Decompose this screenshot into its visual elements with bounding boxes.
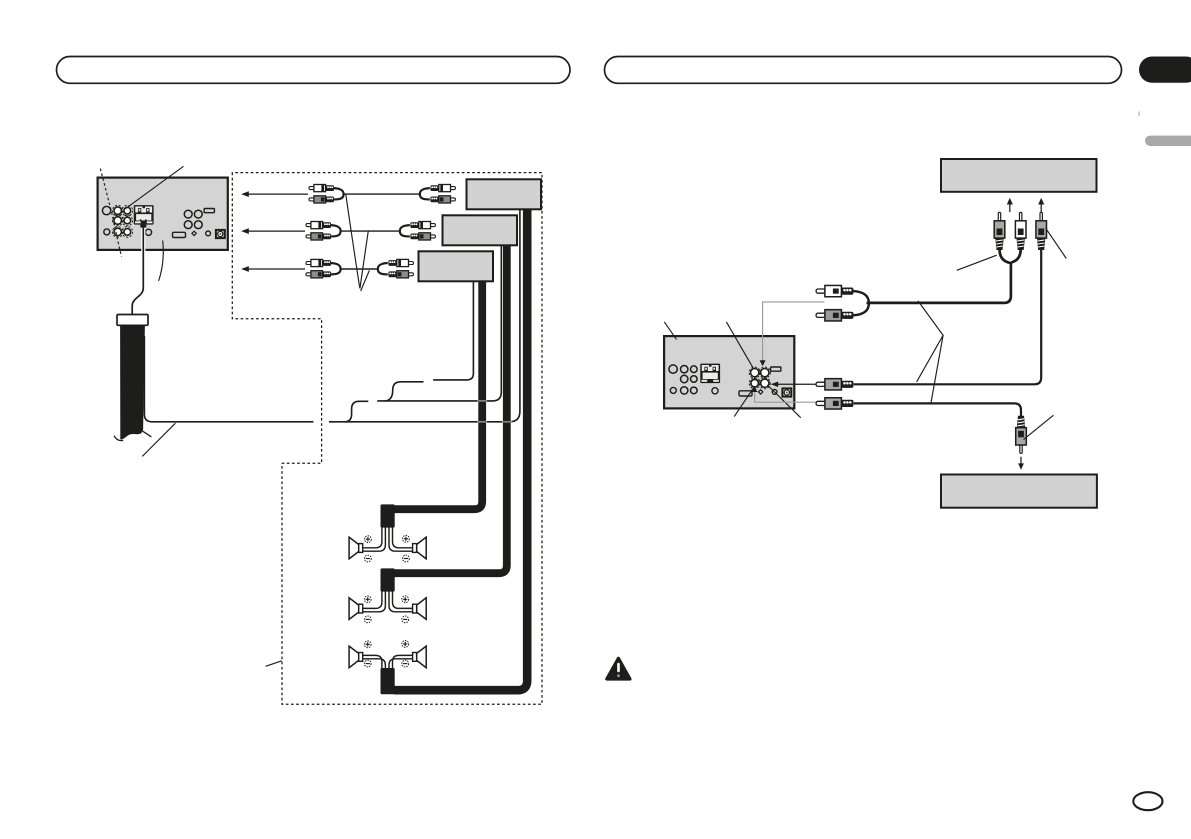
remote wire branch to box 2 (with U-turn joint)	[385, 382, 423, 401]
small gray tick (right margin)	[1138, 112, 1140, 116]
leader line (to top-left jack)	[726, 322, 753, 369]
system remote control wire (long run, head unit to box 1)	[144, 209, 520, 422]
RCA cable row 3: arrow to head unit	[241, 266, 305, 272]
Y-splitter cable from plugs A/B	[867, 249, 1011, 303]
branch wire gray crossing over speaker cable	[477, 400, 487, 402]
speaker front-right	[413, 537, 427, 559]
speaker rear-right	[413, 646, 427, 668]
leader line (to system remote wire)	[142, 423, 175, 456]
header title pill right column	[605, 57, 1122, 84]
RCA cable row 2: left plug pair with loop	[306, 222, 341, 240]
dashed rings on RCA output jacks	[112, 205, 132, 237]
RCA cable row 3: right plug pair with loop	[378, 259, 414, 278]
leader line (panel top-left)	[664, 322, 676, 340]
leader lines converging (cables callout)	[917, 301, 944, 382]
RCA plug D (gray, pointing down)	[1016, 416, 1027, 454]
speaker wires pair 2	[362, 591, 413, 612]
speaker front-left	[349, 537, 363, 559]
speaker cable from box 1 (to rear speakers, bottom run)	[394, 209, 527, 690]
dashed boundary box (amplifier connection area)	[232, 173, 542, 705]
leader line (bottom-left, to jack)	[734, 388, 753, 417]
head unit rear panel (left)	[98, 178, 228, 250]
warning triangle icon	[607, 658, 630, 679]
RCA cable row 2: arrow to head unit	[241, 228, 305, 234]
up arrow into box (right)	[1038, 198, 1044, 212]
antenna mast (black, broken end)	[120, 325, 145, 439]
speaker wires pair 3	[362, 655, 413, 670]
speaker wires pair 1	[362, 527, 413, 551]
antenna lead wire with X junction	[132, 219, 146, 314]
RCA output jacks white fill	[114, 207, 131, 236]
leader line (to plug C)	[1046, 228, 1067, 258]
AV jacks white fill	[751, 369, 769, 388]
remote wire lead from box 3	[433, 281, 473, 380]
RCA plug (row 3, left-pointing, gray)	[816, 398, 853, 409]
speaker cable stub 2	[381, 568, 395, 591]
RCA plug A (gray, up)	[994, 212, 1005, 250]
single cable from plug C	[854, 250, 1042, 385]
terminals pair 3	[364, 641, 371, 648]
RCA cable row 3: interconnect cable	[340, 268, 380, 270]
amplifier label box 2	[443, 215, 518, 245]
RCA cable row 1: arrow to head unit	[241, 191, 308, 197]
RCA cable row 1: left plug pair with loop	[309, 185, 344, 203]
RCA cable row 1: right plug pair with loop	[420, 185, 456, 204]
gray callout bracket row 3 with up arrowhead	[755, 392, 816, 402]
leader tick (to dashed box)	[266, 661, 282, 667]
amplifier label box 3	[419, 251, 494, 281]
RCA cable row 2: right plug pair with loop	[400, 222, 436, 241]
speaker mid-right	[413, 598, 427, 620]
antenna cap	[117, 315, 148, 326]
dashed rings on AV input/output jacks	[749, 367, 770, 389]
dashed leader line (to jack cluster)	[100, 169, 121, 257]
up arrow into box (left)	[1007, 198, 1013, 212]
leader line (panel bottom)	[159, 241, 164, 282]
header title pill left column	[57, 57, 571, 84]
speaker cable stub 1	[381, 504, 395, 527]
RCA cable row 2: interconnect cable	[340, 230, 402, 232]
gray index bar (right edge)	[1145, 136, 1191, 146]
RCA plug B (white, up)	[1015, 212, 1026, 250]
down arrow into bottom box	[1018, 457, 1024, 470]
remote wire gray crossings over speaker cables	[477, 421, 512, 423]
terminals pair 1	[365, 536, 372, 543]
speaker rear-left	[349, 646, 363, 668]
leader lines converging (RCA cables callout)	[346, 195, 360, 288]
head unit rear panel (right)	[664, 336, 794, 408]
page number ellipse (bottom right)	[1133, 792, 1162, 810]
RCA plug dark (row 1, left-pointing)	[816, 310, 853, 321]
amplifier label box 1	[467, 179, 542, 209]
terminals pair 2	[364, 596, 371, 603]
leader line (to Y cable loop)	[957, 255, 997, 270]
RCA plug (row 2, left-pointing, gray)	[816, 379, 853, 390]
RCA plug white (row 1, left-pointing)	[816, 285, 853, 296]
leader line (bottom-right, to jack)	[767, 385, 800, 418]
leader line (to plug D)	[1024, 415, 1054, 439]
remote wire branch step (S-bend to mid level)	[344, 401, 368, 422]
RCA cable row 3: left plug pair with loop	[306, 259, 341, 278]
equipment label box (top right)	[941, 159, 1097, 192]
arrow into jack (row 2)	[771, 382, 817, 388]
RCA cable row 1: interconnect cable	[343, 193, 422, 195]
mast break whiskers	[114, 436, 123, 441]
solid leader line (to rear jack)	[126, 166, 184, 208]
speaker cable from box 3 (to front speakers)	[394, 281, 482, 509]
gray callout bracket row 1 with down arrowhead	[763, 302, 825, 361]
speaker cable from box 2 (to middle speakers)	[394, 245, 507, 573]
speaker cable stub 3	[381, 668, 395, 694]
speaker mid-left	[349, 598, 363, 620]
section tab (black, right edge)	[1139, 57, 1191, 83]
loop cable joining white/dark plug pair (row 1)	[853, 291, 869, 315]
cable row 3 to down plug	[854, 403, 1021, 419]
RCA plug C (gray, up)	[1036, 212, 1047, 250]
equipment label box (bottom right)	[941, 475, 1097, 508]
